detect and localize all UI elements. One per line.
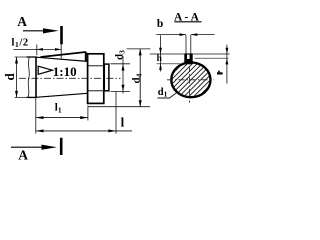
arrow l1/2 right — [55, 48, 61, 51]
arrow l1/2 left — [37, 48, 43, 51]
key top level right — [193, 53, 230, 55]
dimension d3 line — [122, 56, 124, 94]
svg-text:d: d — [2, 73, 17, 81]
key white notch — [187, 55, 190, 59]
t dimension line — [226, 45, 228, 84]
svg-text:l: l — [121, 114, 125, 129]
key end edge — [85, 52, 87, 62]
shaft body top outline — [27, 56, 37, 58]
h/t extension: key top level left — [150, 53, 185, 55]
section arrow A top — [23, 30, 46, 32]
key on cone: top edge — [41, 52, 86, 57]
collar facet line bottom — [88, 90, 103, 92]
section tick top — [60, 26, 63, 44]
svg-text:l1/2: l1/2 — [12, 37, 29, 49]
collar — [88, 54, 104, 104]
extension line d bottom — [15, 96, 28, 98]
svg-text:b: b — [157, 18, 163, 30]
section centerline vertical — [188, 66, 190, 103]
svg-text:h: h — [157, 54, 163, 64]
label t — [217, 72, 223, 74]
section plane extension top — [60, 44, 62, 59]
cone big-end edge — [35, 57, 37, 98]
extension line collar-left going down — [87, 106, 89, 121]
centerline main axis — [19, 77, 121, 79]
arrow d top — [15, 57, 18, 64]
dimension d line — [16, 57, 18, 97]
cone bottom generatrix — [36, 93, 88, 97]
section centerline horizontal — [167, 79, 214, 81]
b dimension line right — [191, 34, 215, 36]
svg-text:d1: d1 — [158, 87, 168, 99]
dimension l1/2 line — [14, 48, 62, 50]
taper symbol — [38, 66, 52, 74]
arrow d bottom — [15, 91, 18, 98]
cone top generatrix — [36, 57, 88, 61]
hatching — [126, 40, 255, 120]
shaft body bottom outline — [27, 96, 37, 98]
extension line d3 bottom — [111, 91, 131, 93]
dimension l line — [36, 130, 132, 132]
key section (blackened) — [184, 53, 192, 64]
svg-text:A: A — [18, 148, 28, 163]
extension line shaft end going down — [115, 92, 117, 134]
h bottom extension — [157, 63, 182, 65]
b dimension line left — [156, 34, 186, 36]
break line — [28, 57, 29, 97]
circle outline — [171, 62, 210, 97]
extension line left (cone start) going down — [35, 98, 37, 134]
h dimension line — [160, 35, 162, 71]
svg-text:1:10: 1:10 — [53, 64, 77, 79]
extension line d4 bottom — [88, 106, 150, 108]
collar facet line top — [88, 65, 103, 67]
b extension lines — [185, 35, 187, 53]
svg-text:A: A — [17, 14, 27, 29]
extension line d top — [15, 56, 28, 58]
section arrow A bottom — [11, 146, 46, 148]
extension line d4 top — [127, 48, 151, 50]
extension line l1/2 — [36, 45, 38, 56]
extension line d3 top — [111, 63, 131, 65]
dimension d4 line — [139, 49, 141, 107]
journal — [104, 64, 109, 91]
dimension l1 line — [36, 117, 88, 119]
t extension line — [195, 57, 229, 59]
section tick bottom — [60, 138, 63, 155]
